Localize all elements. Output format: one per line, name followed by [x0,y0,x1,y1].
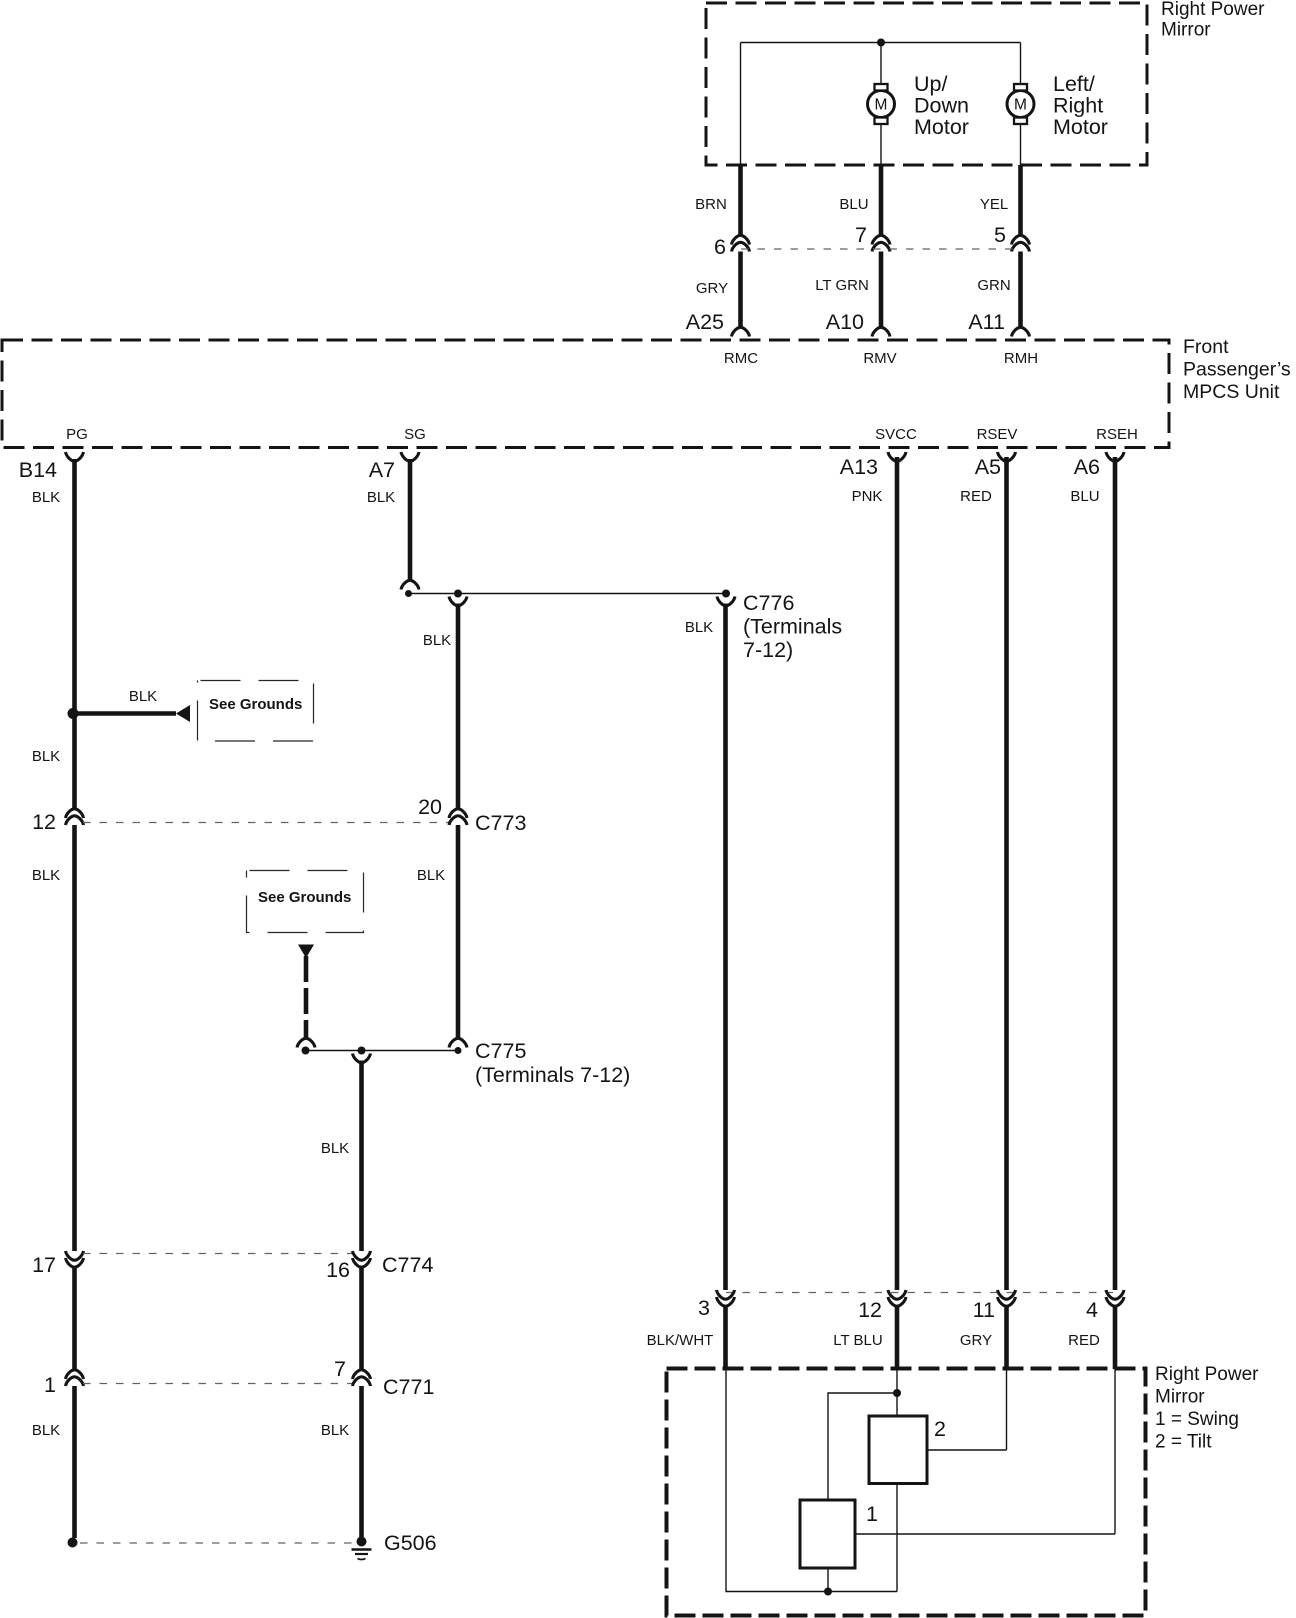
wire: up/down motor feed [880,43,882,85]
svg-text:11: 11 [973,1298,995,1322]
svg-text:BLK: BLK [321,1140,349,1157]
node: C776 junction [722,590,730,598]
svg-text:GRY: GRY [960,1332,992,1349]
wire LT GRN from connector to MPCS pin A10 [879,252,884,328]
svg-text:20: 20 [418,795,442,819]
connector C773 chevrons on SG branch wire [449,809,467,818]
connector pin 11 chevrons [998,1290,1016,1299]
node: rail junction [877,39,885,47]
connector pin 7 chevrons [872,235,890,244]
wire BLK (SG/A7) [408,459,413,581]
wire BLK from C773 to C775 [456,825,461,1039]
svg-text:GRN: GRN [977,277,1010,294]
connector chevron at MPCS exit A6 [1106,452,1124,461]
wire BLK (PG) bottom segment [72,1386,77,1538]
svg-text:(Terminals: (Terminals [743,615,842,639]
wire pin 4 stub [1113,1306,1118,1369]
wire BLK from C774 to C771 [359,1267,364,1370]
connector chevron at MPCS exit A7 [401,452,419,461]
connector pin 4 chevrons [1106,1290,1124,1299]
svg-text:RSEV: RSEV [977,426,1018,443]
node: ground spur junction [68,708,79,719]
wire BLK from C775 to C774 [359,1061,364,1252]
connector pin 6 chevrons [732,235,750,244]
arrow to See Grounds (left) [176,705,190,722]
node: wire end dot [68,1538,78,1548]
svg-text:YEL: YEL [980,196,1008,213]
dashed connector line C774 [83,1253,353,1255]
svg-text:C776: C776 [743,591,794,615]
svg-text:A25: A25 [686,310,724,334]
svg-text:17: 17 [32,1253,56,1277]
wire: ground spur to See Grounds [77,711,176,716]
wire BLK (PG/B14) upper segment [72,459,77,809]
svg-text:6: 6 [714,235,726,259]
svg-text:SG: SG [404,426,426,443]
wire RED (RSEV/A5 to pin 11) [1004,457,1009,1290]
svg-text:7: 7 [334,1357,346,1381]
svg-text:12: 12 [32,810,56,834]
svg-text:Motor: Motor [914,115,969,139]
svg-text:Left/: Left/ [1053,72,1095,96]
wire BLU from mirror to connector pin 7 [879,165,884,236]
wire GRY from connector to MPCS pin A25 [738,252,743,328]
ground G506 symbol [352,1537,372,1560]
wire pin 12 stub [895,1306,900,1369]
wire: swing motor 1 to bottom rail [827,1568,829,1592]
svg-text:1: 1 [44,1373,56,1397]
svg-text:Mirror: Mirror [1161,20,1211,41]
wire: swing motor 1 right lead [855,1533,1115,1535]
wire BLK from SG branch to C773 [456,604,461,810]
wire: LT BLU inside mirror [896,1369,898,1416]
motor M: Left/Right Motor [1007,84,1034,124]
svg-text:M: M [1014,97,1027,114]
svg-text:GRY: GRY [696,280,728,297]
wire PNK (SVCC/A13 to pin 12) [895,457,900,1290]
svg-text:RSEH: RSEH [1096,426,1138,443]
wire: left/right motor return [1020,122,1022,165]
connector C771 chevrons on PG wire [66,1370,84,1379]
Front Passenger's MPCS Unit enclosure [2,340,1169,448]
connector chevron at A7 wire end [401,580,419,589]
svg-text:See Grounds: See Grounds [258,889,351,906]
svg-text:RMC: RMC [724,350,758,367]
connector chevron at MPCS exit B14 [66,452,84,461]
node: SG branch junction [454,590,462,598]
svg-text:1 = Swing: 1 = Swing [1155,1409,1239,1430]
connector C774 chevrons on PG wire [66,1251,84,1260]
svg-text:MPCS Unit: MPCS Unit [1183,381,1280,403]
wire GRN from connector to MPCS pin A11 [1018,252,1023,328]
node: bottom rail junction [824,1588,832,1596]
svg-text:RMH: RMH [1004,350,1038,367]
connector pin 12 chevrons [888,1290,906,1299]
svg-text:3: 3 [698,1296,710,1320]
Right Power Mirror enclosure (bottom) [667,1369,1146,1616]
wire BLK from C771 to G506 [359,1386,364,1537]
connector chevron below SG branch [449,597,467,606]
connector C771 chevrons on right wire [353,1370,371,1379]
svg-text:Down: Down [914,94,969,118]
wire pin 3 stub [723,1306,728,1369]
dashed connector line pins 6/7/5 [741,248,1021,250]
svg-text:Motor: Motor [1053,115,1108,139]
Right Power Mirror enclosure (top) [706,3,1147,165]
svg-text:PG: PG [66,426,88,443]
svg-text:A11: A11 [968,310,1005,334]
wire: tilt motor 2 to bottom rail [896,1484,898,1592]
svg-text:C771: C771 [383,1375,434,1399]
wire BLK (PG) between C773 and C774 [72,825,77,1251]
svg-text:BLK: BLK [32,489,60,506]
svg-text:BLK: BLK [685,619,713,636]
connector pin 3 chevrons [717,1290,735,1299]
wire pin 11 stub [1004,1306,1009,1369]
svg-text:BLK: BLK [129,688,157,705]
wire BLU (RSEH/A6 to pin 4) [1113,457,1118,1290]
See Grounds reference box (lower) [247,871,364,933]
svg-text:Up/: Up/ [914,72,947,96]
dashed connector line C773 [83,822,449,824]
wire: tilt motor 2 right lead [927,1449,1007,1451]
svg-text:BLK: BLK [32,748,60,765]
svg-text:LT GRN: LT GRN [815,277,869,294]
svg-text:BLK: BLK [32,867,60,884]
wire BRN from mirror to connector pin 6 [738,165,743,236]
wire: up/down motor return [880,122,882,165]
svg-text:1: 1 [866,1502,878,1526]
svg-text:C774: C774 [382,1253,433,1277]
node: swing/tilt junction [893,1389,901,1397]
svg-text:C773: C773 [475,811,526,835]
svg-text:Right Power: Right Power [1155,1364,1259,1385]
svg-text:BLK: BLK [321,1422,349,1439]
svg-text:M: M [875,97,888,114]
svg-text:4: 4 [1086,1298,1098,1322]
svg-text:16: 16 [326,1258,350,1282]
actuator 1 (Swing) [800,1500,855,1568]
svg-text:A7: A7 [369,458,395,482]
node: C775 middle junction [358,1047,366,1055]
dashed connector line pins 3/12/11/4 [726,1292,1115,1294]
connector chevron at MPCS exit A5 [998,452,1016,461]
svg-text:PNK: PNK [852,488,883,505]
arrow from See Grounds (down) [298,945,314,959]
dashed connector line C771 [83,1383,353,1385]
svg-text:A13: A13 [840,455,878,479]
svg-text:C775: C775 [475,1039,526,1063]
svg-text:Right Power: Right Power [1161,0,1265,20]
svg-text:G506: G506 [384,1531,437,1555]
wire BLK (PG) between C774 and C771 [72,1267,77,1370]
svg-text:RED: RED [1068,1332,1100,1349]
wire: left/right motor feed [1020,43,1022,85]
See Grounds reference box (upper) [198,681,314,742]
actuator 2 (Tilt) [869,1416,927,1484]
svg-text:Right: Right [1053,94,1103,118]
connector chevron at MPCS entry A25 [732,327,750,336]
svg-text:Mirror: Mirror [1155,1387,1205,1408]
svg-text:(Terminals 7-12): (Terminals 7-12) [475,1063,630,1087]
connector C774 chevrons on right wire [353,1251,371,1260]
wire YEL from mirror to connector pin 5 [1018,165,1023,236]
motor M: Up/Down Motor [868,84,895,124]
connector C773 chevrons on PG wire [66,809,84,818]
node: SG junction left [405,590,412,597]
svg-text:BRN: BRN [695,196,727,213]
svg-text:A5: A5 [975,455,1001,479]
connector chevron at C775 right wire end [449,1038,467,1047]
svg-text:RED: RED [960,488,992,505]
svg-text:BLK/WHT: BLK/WHT [647,1332,714,1349]
svg-text:A6: A6 [1074,455,1100,479]
svg-text:BLK: BLK [417,867,445,884]
svg-text:BLK: BLK [32,1422,60,1439]
svg-text:LT BLU: LT BLU [833,1332,882,1349]
wire: interior supply rail [741,42,1021,44]
connector chevron at MPCS entry A11 [1012,327,1030,336]
wire: RED inside mirror [1114,1369,1116,1534]
svg-text:5: 5 [994,223,1006,247]
svg-text:BLU: BLU [839,196,868,213]
svg-text:B14: B14 [19,458,57,482]
dashed link to G506 [80,1542,352,1544]
wire: left drop inside mirror box [740,43,742,166]
wire: branch to swing motor 1 [828,1393,897,1500]
connector chevron below C775 middle junction [353,1054,371,1063]
wire: BLK/WHT inside mirror [726,1369,897,1592]
connector chevron at MPCS entry A10 [872,327,890,336]
connector pin 5 chevrons [1012,235,1030,244]
connector chevron below C776 junction [717,597,735,606]
connector chevron at dashed wire end [297,1038,315,1047]
svg-text:RMV: RMV [863,350,896,367]
wire: GRY inside mirror [1006,1369,1008,1450]
svg-text:Front: Front [1183,336,1229,358]
svg-text:12: 12 [858,1298,882,1322]
connector chevron at MPCS exit A13 [888,452,906,461]
node: C775 left junction [302,1047,310,1055]
svg-text:2: 2 [934,1417,946,1441]
dashed ground wire [304,956,309,1039]
svg-text:BLK: BLK [367,489,395,506]
svg-text:BLU: BLU [1070,488,1099,505]
svg-text:2 = Tilt: 2 = Tilt [1155,1432,1212,1453]
svg-text:BLK: BLK [423,632,451,649]
svg-text:A10: A10 [826,310,864,334]
svg-text:SVCC: SVCC [875,426,917,443]
wire: SG distribution line [409,593,727,595]
svg-text:See Grounds: See Grounds [209,696,302,713]
node: C775 right junction [455,1047,462,1054]
wire BLK/WHT (C776 to pin 3) [723,604,728,1291]
svg-text:7: 7 [855,223,867,247]
svg-text:7-12): 7-12) [743,638,793,662]
svg-text:Passenger’s: Passenger’s [1183,359,1291,381]
wire: C775 distribution line [306,1050,459,1052]
